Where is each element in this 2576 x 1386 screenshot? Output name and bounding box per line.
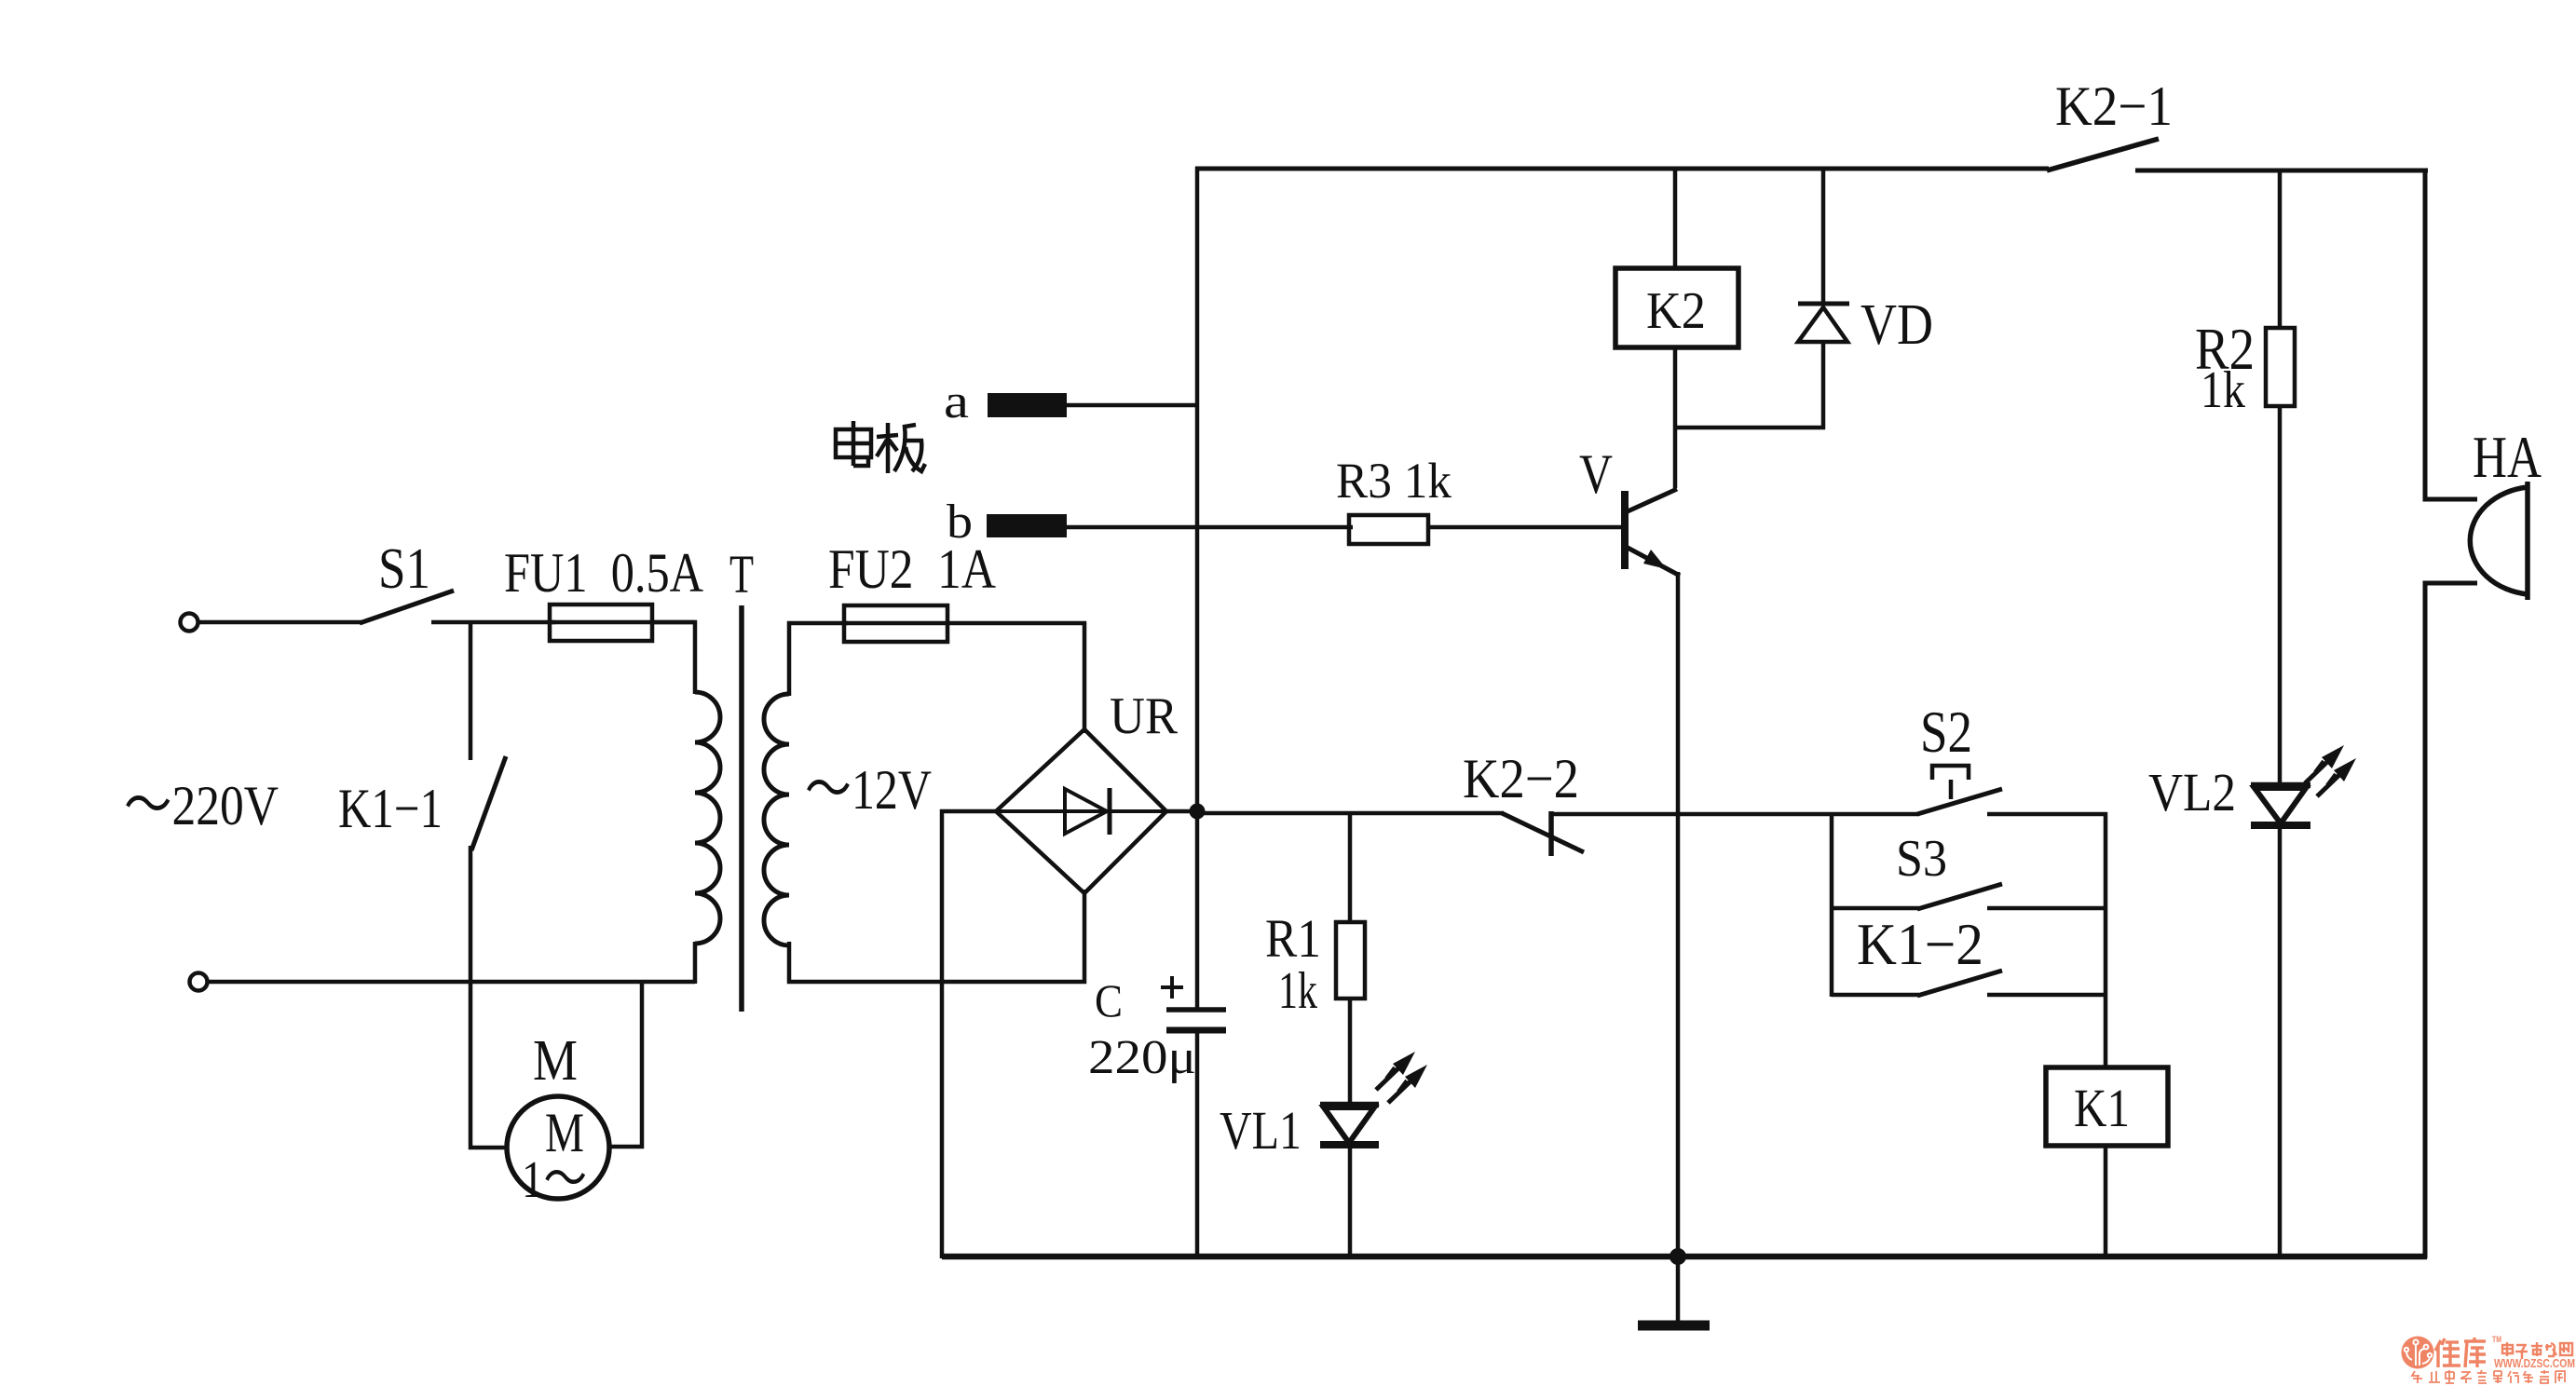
svg-text:1～: 1～ — [522, 1151, 587, 1209]
wire K1-2 to right branch bus — [1987, 993, 2107, 998]
wire top rail (left part) — [1195, 167, 2049, 171]
relay contact K2-1 — [2047, 75, 2173, 170]
node ground junction dot — [1670, 1248, 1686, 1265]
wire terminal L to S1 — [198, 620, 361, 625]
wire top rail (right part) — [2135, 169, 2428, 173]
wire main vertical bus (top rail to C) — [1195, 167, 1200, 1010]
svg-text:K2−2: K2−2 — [1463, 748, 1579, 809]
ground — [1638, 1257, 1710, 1325]
switch S1 — [360, 537, 454, 623]
bridge rectifier UR — [996, 687, 1179, 893]
wire left branch bus — [1830, 813, 1834, 997]
svg-text:K2: K2 — [1646, 282, 1706, 340]
svg-text:TM: TM — [2492, 1335, 2501, 1344]
switch S2 (push-button) — [1917, 699, 2002, 814]
svg-text:S2: S2 — [1920, 699, 1972, 765]
transformer T secondary winding — [764, 694, 932, 945]
resistor R1 1k — [1265, 811, 1365, 1107]
watermark slogan glyph row — [2412, 1370, 2565, 1383]
svg-text:VL2: VL2 — [2148, 762, 2236, 822]
electrode a — [944, 375, 1197, 428]
svg-text:S3: S3 — [1896, 830, 1947, 888]
svg-text:R3 1k: R3 1k — [1336, 453, 1452, 509]
svg-text:K1−2: K1−2 — [1857, 911, 1983, 977]
fuse FU2 1A — [828, 538, 996, 642]
wire motor right branch — [609, 982, 642, 1147]
relay contact K1-2 — [1832, 911, 2002, 996]
svg-text:HA: HA — [2473, 424, 2542, 490]
LED VL1 — [1220, 1052, 1427, 1258]
relay coil K1 — [2046, 1067, 2168, 1258]
wire R3 to base of V — [1428, 525, 1626, 530]
label ~220V — [124, 775, 279, 836]
wire S3 to right branch bus — [1987, 906, 2107, 911]
label electrode (dianji) — [836, 421, 925, 473]
wire HA branch vertical top — [2425, 169, 2477, 499]
terminal N (220V bottom) — [190, 973, 208, 991]
watermark small glyph row (dianzi shichang wang) — [2502, 1342, 2572, 1359]
electrode b — [947, 496, 1353, 549]
svg-text:1k: 1k — [1278, 962, 1317, 1020]
svg-text:FU1 0.5A: FU1 0.5A — [504, 542, 703, 604]
motor M — [507, 1029, 609, 1209]
svg-text:VL1: VL1 — [1220, 1100, 1302, 1161]
svg-text:S1: S1 — [378, 537, 430, 601]
wire ground rail (bottom) — [942, 1254, 2427, 1260]
svg-text:M: M — [533, 1029, 578, 1093]
node J1 (S1/K1-1 junction) — [469, 620, 473, 760]
wire DC+ rail to K2-2 — [1197, 811, 1504, 816]
svg-text:VD: VD — [1860, 293, 1933, 357]
svg-text:b: b — [947, 496, 973, 549]
resistor R3 1k — [1336, 453, 1452, 544]
watermark TM — [2492, 1335, 2501, 1344]
capacitor C 220u — [1088, 974, 1226, 1258]
svg-text:C: C — [1095, 974, 1123, 1026]
svg-text:WWW.DZSC.COM: WWW.DZSC.COM — [2494, 1357, 2575, 1370]
transistor V — [1579, 443, 1680, 576]
svg-text:～220V: ～220V — [124, 775, 279, 836]
svg-text:K2−1: K2−1 — [2055, 75, 2173, 137]
wire FU2 to bridge top — [947, 623, 1084, 733]
svg-text:UR: UR — [1110, 687, 1179, 745]
svg-text:R1: R1 — [1265, 908, 1321, 969]
wire S2 to right branch bus — [1987, 812, 2107, 817]
wire S1 to FU1 — [431, 620, 555, 625]
watermark logo circle — [2402, 1337, 2434, 1369]
svg-text:T: T — [729, 544, 754, 605]
watermark weiku big glyphs — [2435, 1338, 2486, 1367]
wire emitter of V to ground rail — [1676, 572, 1681, 1258]
node DC+ junction dot — [1190, 804, 1206, 820]
relay contact K1-1 — [338, 756, 506, 850]
transformer T primary winding — [695, 692, 720, 984]
wire bridge DC+ to node — [1166, 809, 1197, 814]
diode VD — [1798, 169, 1933, 429]
svg-text:1k: 1k — [2201, 361, 2245, 419]
wire secondary bottom to bridge bottom — [789, 890, 1084, 982]
switch S3 — [1832, 830, 2002, 909]
wire K2 bottom jog to VD — [1673, 426, 1825, 430]
terminal L (220V top) — [181, 614, 198, 632]
svg-text:K1: K1 — [2074, 1078, 2130, 1138]
svg-text:220μ: 220μ — [1088, 1031, 1196, 1084]
wire K2-2 to S2 — [1551, 812, 1919, 817]
wire K1-1 to motor — [470, 846, 507, 1148]
LED VL2 — [2148, 745, 2356, 1258]
fuse FU1 0.5A — [504, 542, 703, 641]
wire bridge DC- down to ground rail — [942, 811, 996, 1258]
watermark url text — [2494, 1357, 2575, 1370]
transformer T core — [729, 544, 754, 1012]
wire HA branch vertical bottom — [2425, 583, 2477, 1258]
wire FU1 to transformer primary — [652, 622, 695, 694]
svg-text:V: V — [1579, 443, 1613, 505]
svg-text:a: a — [944, 375, 969, 428]
svg-text:K1−1: K1−1 — [338, 778, 443, 839]
relay contact K2-2 (NC) — [1463, 748, 1584, 856]
wire secondary top to FU2 — [789, 623, 848, 696]
svg-text:～12V: ～12V — [805, 759, 932, 821]
relay coil K2 — [1615, 169, 1738, 488]
resistor R2 1k — [2195, 170, 2295, 788]
speaker HA — [2470, 424, 2542, 600]
wire 220V bottom rail — [208, 980, 695, 985]
wire right branch bus down to K1 — [2104, 812, 2108, 1069]
